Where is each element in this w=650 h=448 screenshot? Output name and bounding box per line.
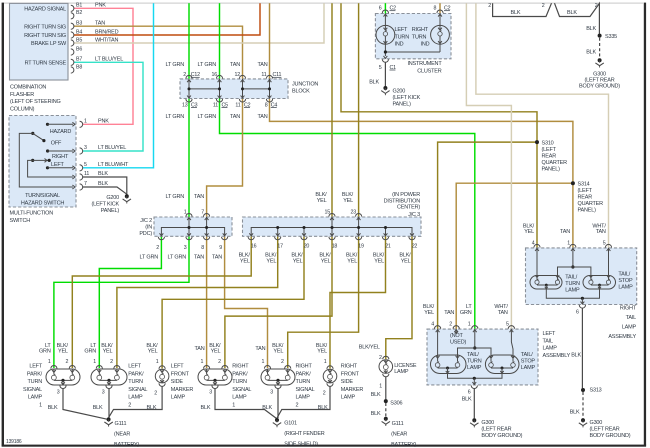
right tail lamp internal: tail/stop lamp: [583, 276, 616, 290]
svg-text:FLASHER: FLASHER: [10, 92, 34, 98]
ground G200 left kick panel (cluster): [383, 86, 387, 90]
svg-text:PANEL): PANEL): [542, 166, 561, 172]
wire LT GRN junction block pin 11 to left tail lamp pin 1: [220, 99, 475, 330]
svg-text:MARKER: MARKER: [341, 387, 364, 393]
svg-text:ASSEMBLY: ASSEMBLY: [543, 353, 571, 359]
svg-text:3: 3: [184, 245, 187, 251]
svg-text:(LEFT: (LEFT: [578, 188, 593, 194]
combination flasher box: [10, 3, 69, 80]
svg-text:RIGHT: RIGHT: [232, 364, 249, 370]
svg-text:BLK/: BLK/: [399, 252, 411, 258]
svg-text:G111: G111: [115, 421, 127, 427]
svg-text:LAMP: LAMP: [232, 395, 247, 401]
svg-text:S306: S306: [390, 400, 402, 406]
svg-text:SIGNAL: SIGNAL: [128, 387, 147, 393]
wire BLK right front side marker to G101: [277, 387, 330, 419]
svg-text:J/C 3: J/C 3: [408, 212, 420, 218]
wire BLK S313 to G300 dashed: [582, 392, 584, 418]
right front side marker lamp: [323, 369, 337, 383]
svg-text:TAN: TAN: [258, 114, 268, 120]
svg-text:TAIL/: TAIL/: [618, 272, 630, 278]
svg-text:LAMP: LAMP: [543, 346, 558, 352]
wire BLK switch pin 11 to G200: [83, 177, 127, 195]
svg-text:RIGHT: RIGHT: [620, 306, 637, 312]
wire BLK switch pin 7 to G200: [83, 187, 127, 194]
wire TAN S314 branch to left tail lamp pin 2: [456, 183, 573, 329]
svg-text:LAMP: LAMP: [28, 395, 43, 401]
svg-text:QUARTER: QUARTER: [542, 160, 568, 166]
wire BLK right park/turn lamp 1 to G101: [215, 389, 277, 419]
switch hazard contact: [46, 123, 49, 126]
svg-text:YEL: YEL: [321, 259, 331, 265]
svg-text:2: 2: [449, 322, 452, 328]
svg-text:LAMP: LAMP: [618, 285, 633, 291]
svg-text:B3: B3: [76, 21, 82, 27]
wire WHT/TAN top of page to right tail lamp pin 5: [476, 3, 609, 248]
svg-text:TAN: TAN: [596, 229, 606, 235]
svg-text:139186: 139186: [6, 439, 22, 445]
wire WHT/TAN top of page to left tail lamp pin 5: [466, 3, 511, 329]
svg-text:YEL: YEL: [103, 349, 113, 355]
svg-text:BLK/: BLK/: [291, 252, 303, 258]
svg-text:BLK: BLK: [201, 405, 211, 411]
svg-text:SWITCH: SWITCH: [10, 218, 31, 224]
svg-text:18: 18: [332, 244, 338, 250]
wire BLK left park/turn lamp 2 to G111: [108, 389, 110, 418]
svg-text:YEL: YEL: [317, 198, 327, 204]
svg-text:TAIL/: TAIL/: [565, 275, 577, 281]
svg-text:2: 2: [154, 390, 157, 396]
svg-text:RIGHT: RIGHT: [412, 27, 429, 33]
svg-text:(RIGHT FENDER: (RIGHT FENDER: [284, 431, 325, 437]
svg-text:LT BLU/YEL: LT BLU/YEL: [95, 57, 123, 63]
multi-function switch box: [9, 116, 76, 208]
svg-text:11: 11: [213, 102, 218, 108]
svg-text:2: 2: [542, 3, 545, 9]
svg-text:CLUSTER: CLUSTER: [417, 69, 441, 75]
svg-text:LAMP: LAMP: [341, 395, 356, 401]
svg-text:16: 16: [251, 244, 257, 250]
svg-text:3: 3: [270, 389, 273, 395]
svg-text:RT TURN SENSE: RT TURN SENSE: [25, 61, 67, 67]
svg-text:B4: B4: [76, 29, 82, 35]
svg-text:G300: G300: [481, 420, 494, 426]
left park/turn signal lamp 2: [91, 369, 127, 385]
svg-text:REAR: REAR: [542, 153, 557, 159]
wire BLK S306 to G111 dashed: [385, 403, 387, 417]
svg-text:21: 21: [385, 244, 391, 250]
J/C 3 internal bus: [251, 228, 412, 237]
svg-text:PARK/: PARK/: [232, 371, 248, 377]
svg-text:TURN: TURN: [296, 379, 311, 385]
svg-text:G300: G300: [590, 420, 603, 426]
svg-text:1: 1: [93, 359, 96, 365]
svg-text:LT GRN: LT GRN: [166, 194, 185, 200]
svg-text:1: 1: [232, 403, 235, 409]
svg-text:(NOT: (NOT: [450, 333, 463, 339]
svg-text:B2: B2: [76, 10, 82, 16]
svg-text:(LEFT REAR: (LEFT REAR: [585, 77, 615, 83]
svg-text:LEFT: LEFT: [171, 364, 184, 370]
svg-text:BLK/: BLK/: [265, 252, 277, 258]
svg-text:PNK: PNK: [98, 119, 109, 125]
svg-text:S310: S310: [542, 140, 554, 146]
svg-text:TAN: TAN: [560, 229, 570, 235]
svg-text:YEL: YEL: [240, 259, 250, 265]
flasher pin B6: [71, 49, 74, 55]
svg-text:13: 13: [182, 102, 188, 108]
svg-text:RIGHT TURN SIG: RIGHT TURN SIG: [24, 33, 66, 39]
svg-text:LEFT: LEFT: [51, 162, 64, 168]
svg-text:2: 2: [110, 359, 113, 365]
wire BLK/YEL J/C 3 pin 17 to left park/turn lamp 2: [117, 236, 278, 368]
svg-text:BLK: BLK: [318, 405, 328, 411]
svg-text:WHT/TAN: WHT/TAN: [95, 37, 118, 43]
svg-text:SIGNAL: SIGNAL: [296, 387, 315, 393]
wire BLK/YEL J/C 3 pin 16 to left park/turn lamp 1: [72, 236, 251, 368]
wire BLK/YEL top of page to J/C 3 pin 15: [331, 3, 333, 217]
svg-text:QUARTER: QUARTER: [578, 201, 604, 207]
svg-text:BODY GROUND): BODY GROUND): [481, 433, 522, 439]
svg-text:1: 1: [261, 359, 264, 365]
svg-text:CENTER): CENTER): [397, 205, 420, 211]
switch pin brackets: [80, 121, 83, 127]
svg-text:LEFT: LEFT: [128, 364, 141, 370]
wire PNK flasher B1 to switch pin 1: [74, 8, 133, 124]
ground G111 near battery: [107, 417, 111, 421]
svg-text:LT GRN: LT GRN: [198, 62, 217, 68]
wire BRN/RED flasher B4 to top of page: [74, 3, 260, 35]
svg-text:22: 22: [412, 244, 418, 250]
wire LT GRN top to instrument cluster pin 6: [384, 3, 386, 13]
svg-text:LAMP: LAMP: [171, 395, 186, 401]
svg-text:B7: B7: [76, 57, 82, 63]
svg-text:SIDE: SIDE: [341, 379, 354, 385]
svg-text:1: 1: [324, 359, 327, 365]
license lamp: [379, 360, 393, 374]
wire TAN junction block pin 8 to S314 and right tail lamp pin 1: [270, 99, 573, 248]
svg-text:TURN: TURN: [467, 358, 482, 364]
svg-text:SIDE: SIDE: [171, 379, 184, 385]
svg-text:IND: IND: [395, 42, 404, 48]
svg-text:TAIL/: TAIL/: [521, 352, 533, 358]
svg-text:BLK: BLK: [586, 50, 596, 56]
svg-text:5: 5: [603, 241, 606, 247]
svg-text:(IN: (IN: [145, 224, 152, 230]
svg-text:TURN: TURN: [565, 281, 580, 287]
svg-text:2: 2: [156, 245, 159, 251]
wire BLK/YEL J/C 3 pin 20 to left front side marker: [162, 236, 304, 368]
svg-text:20: 20: [304, 244, 310, 250]
svg-text:LAMP: LAMP: [467, 365, 482, 371]
svg-text:TAN: TAN: [230, 62, 240, 68]
svg-text:ASSEMBLY: ASSEMBLY: [608, 334, 636, 340]
svg-text:MARKER: MARKER: [171, 387, 194, 393]
wire BLK cluster to G200: [384, 62, 386, 86]
svg-text:YEL: YEL: [347, 259, 357, 265]
switch left contact: [46, 166, 49, 169]
svg-text:G200: G200: [393, 89, 406, 95]
svg-text:5: 5: [506, 322, 509, 328]
svg-text:2: 2: [488, 3, 491, 9]
svg-text:BLK: BLK: [371, 392, 381, 398]
svg-text:LT BLU/YEL: LT BLU/YEL: [98, 145, 126, 151]
svg-text:BLK: BLK: [567, 10, 577, 16]
switch pole bracket inner: [28, 160, 73, 177]
wire TAN flasher B3 to junction block pin 12: [74, 26, 243, 79]
svg-text:BLK: BLK: [571, 353, 581, 359]
svg-text:(IN POWER: (IN POWER: [392, 192, 420, 198]
left tail lamp internal: tail/stop lamp: [485, 355, 519, 374]
svg-text:GRN: GRN: [84, 349, 96, 355]
svg-text:TURN: TURN: [412, 34, 427, 40]
svg-text:(LEFT OF STEERING: (LEFT OF STEERING: [10, 99, 61, 105]
left tail lamp assembly box: [427, 329, 538, 385]
svg-text:PANEL): PANEL): [393, 102, 412, 108]
svg-text:BLK: BLK: [98, 171, 108, 177]
svg-text:BLK: BLK: [511, 10, 521, 16]
svg-text:LT GRN: LT GRN: [140, 255, 159, 261]
svg-text:SIDE SHIELD): SIDE SHIELD): [284, 442, 318, 448]
svg-text:LAMP: LAMP: [296, 395, 311, 401]
wire BLK/YEL S310 branch to left tail lamp pin 4: [438, 142, 537, 329]
svg-text:TAN: TAN: [212, 255, 222, 261]
svg-text:6: 6: [468, 389, 471, 395]
switch right contact: [46, 149, 49, 152]
svg-text:TURN: TURN: [232, 379, 247, 385]
svg-text:(NEAR: (NEAR: [114, 431, 130, 437]
svg-text:2: 2: [218, 359, 221, 365]
svg-text:TAN: TAN: [255, 346, 265, 352]
svg-text:YEL: YEL: [424, 310, 434, 316]
svg-text:PARK/: PARK/: [128, 371, 144, 377]
switch off blade: [31, 132, 34, 135]
svg-text:2: 2: [128, 403, 131, 409]
svg-text:J/C 2: J/C 2: [140, 218, 152, 224]
svg-text:BLK/: BLK/: [342, 192, 354, 198]
svg-text:RIGHT: RIGHT: [341, 364, 358, 370]
wire TAN J/C 2 pin 9 to right park/turn lamp 2: [225, 236, 268, 368]
svg-text:2: 2: [323, 390, 326, 396]
svg-text:BLK: BLK: [586, 26, 596, 32]
svg-text:BODY GROUND): BODY GROUND): [579, 84, 620, 90]
J/C 2 internal bus: [161, 228, 224, 237]
splice S313: [581, 388, 585, 392]
svg-text:IND: IND: [421, 42, 430, 48]
svg-text:2: 2: [281, 359, 284, 365]
svg-text:G300: G300: [593, 71, 606, 77]
flasher pin B8: [71, 67, 74, 73]
svg-text:LT GRN: LT GRN: [168, 255, 187, 261]
svg-text:INSTRUMENT: INSTRUMENT: [407, 61, 442, 67]
wire LT GRN top to junction block pin 16: [219, 3, 221, 79]
splice S310: [535, 140, 539, 144]
svg-text:4: 4: [532, 241, 535, 247]
right park/turn signal lamp 1: [198, 369, 232, 385]
left tail internal wiring: [437, 329, 439, 362]
svg-text:JUNCTION: JUNCTION: [292, 81, 318, 87]
splice S335: [598, 34, 602, 38]
svg-text:YEL: YEL: [401, 259, 411, 265]
svg-text:S314: S314: [578, 181, 590, 187]
svg-text:LT GRN: LT GRN: [166, 62, 185, 68]
svg-text:YEL: YEL: [524, 229, 534, 235]
svg-text:4: 4: [431, 322, 434, 328]
svg-text:B1: B1: [76, 3, 82, 9]
svg-text:S313: S313: [590, 388, 602, 394]
svg-text:1: 1: [379, 384, 382, 390]
svg-text:PNK: PNK: [95, 3, 106, 9]
svg-text:USED): USED): [450, 340, 466, 346]
svg-text:3: 3: [84, 145, 87, 151]
svg-text:TAN: TAN: [95, 21, 105, 27]
svg-text:FRONT: FRONT: [341, 371, 360, 377]
svg-text:TAN: TAN: [195, 346, 205, 352]
svg-text:PARK/: PARK/: [27, 371, 43, 377]
svg-text:YEL: YEL: [343, 198, 353, 204]
svg-text:LT GRN: LT GRN: [198, 114, 217, 120]
right tail internal wiring: [536, 248, 538, 280]
svg-text:2: 2: [595, 3, 598, 9]
svg-text:SIGNAL: SIGNAL: [23, 387, 42, 393]
left front side marker lamp: [155, 369, 169, 383]
wire TAN J/C 2 pin 8 to right park/turn lamp 1: [206, 236, 208, 368]
svg-text:1: 1: [84, 119, 87, 125]
svg-text:TAIL: TAIL: [626, 315, 637, 321]
svg-text:TURN: TURN: [28, 379, 43, 385]
J/C 2 box: [154, 217, 232, 236]
svg-text:HAZARD SIGNAL: HAZARD SIGNAL: [24, 7, 66, 13]
wire TAN top to junction block pin 11: [269, 3, 271, 79]
svg-text:1: 1: [201, 359, 204, 365]
splice S314: [571, 181, 575, 185]
left turn indicator bulb: [376, 25, 395, 44]
svg-text:B6: B6: [76, 46, 82, 52]
splice S306: [384, 399, 388, 403]
svg-text:S335: S335: [605, 34, 617, 40]
ground G101 right fender side shield: [275, 418, 279, 422]
svg-text:2: 2: [183, 72, 186, 78]
svg-text:TAN: TAN: [444, 310, 454, 316]
svg-text:DISTRIBUTION: DISTRIBUTION: [384, 198, 421, 204]
right park/turn signal lamp 2: [261, 369, 295, 385]
svg-text:BLK/: BLK/: [239, 252, 251, 258]
svg-text:BLK: BLK: [147, 405, 157, 411]
instrument cluster box: [375, 14, 451, 59]
wire BLK left front side marker to G111: [109, 387, 163, 418]
svg-text:LAMP: LAMP: [521, 365, 536, 371]
svg-text:YEL: YEL: [293, 259, 303, 265]
svg-text:BLK/: BLK/: [373, 252, 385, 258]
wire BLK/YEL top of page to S310 to right tail lamp pin 4: [341, 3, 537, 248]
svg-text:3: 3: [209, 389, 212, 395]
svg-text:PARK/: PARK/: [296, 371, 312, 377]
svg-text:8: 8: [433, 6, 436, 12]
svg-text:LAMP: LAMP: [622, 325, 637, 331]
svg-text:BLK: BLK: [98, 181, 108, 187]
svg-text:TURN: TURN: [395, 34, 410, 40]
svg-text:17: 17: [277, 244, 283, 250]
svg-text:BLK/YEL: BLK/YEL: [359, 345, 380, 351]
svg-text:YEL: YEL: [211, 349, 221, 355]
svg-text:TURN: TURN: [128, 379, 143, 385]
flasher pin B3: [71, 23, 74, 29]
svg-text:2: 2: [379, 355, 382, 361]
wire LT BLU/WHT switch pin 5 to top of page: [83, 3, 154, 168]
svg-text:TAN: TAN: [230, 114, 240, 120]
right turn indicator bulb: [431, 25, 450, 44]
wire WHT/TAN flasher B5 to top of page: [74, 3, 324, 43]
wire BLK right park/turn lamp 2 to G101: [277, 389, 279, 418]
svg-text:3: 3: [57, 389, 60, 395]
svg-text:16: 16: [212, 72, 218, 78]
switch pole bracket outer: [19, 133, 73, 187]
wire TAN junction block pin 11 to J/C 2 pin 7: [207, 99, 243, 218]
cluster internal ground wire: [439, 44, 441, 52]
svg-text:OFF: OFF: [51, 140, 62, 146]
wire LT BLU/YEL flasher B7 to switch pin 3: [74, 62, 143, 151]
wire LT GRN J/C 2 pin 2 to left park/turn lamp 2: [99, 236, 161, 368]
wire LT GRN junction block pin 13 to J/C 2 pin 1: [188, 99, 190, 218]
ground G300 left rear body ground (left): [472, 418, 476, 422]
ground G300 left rear body ground (top right): [598, 58, 602, 62]
svg-text:6: 6: [576, 310, 579, 316]
svg-text:BLK: BLK: [48, 405, 58, 411]
svg-text:TAN: TAN: [194, 194, 204, 200]
svg-text:TURN/SIGNAL: TURN/SIGNAL: [25, 193, 60, 199]
svg-text:YEL: YEL: [317, 349, 327, 355]
svg-text:BODY GROUND): BODY GROUND): [590, 433, 631, 439]
svg-text:B8: B8: [76, 64, 82, 70]
wire BLK S335 to G300 dashed: [599, 38, 601, 59]
svg-text:6: 6: [379, 6, 382, 12]
svg-text:5: 5: [84, 162, 87, 168]
flasher pin B5: [71, 40, 74, 46]
svg-text:SIGNAL: SIGNAL: [232, 387, 251, 393]
svg-text:LT BLU/WHT: LT BLU/WHT: [98, 162, 129, 168]
wire BLK license lamp to S306: [385, 377, 387, 400]
svg-text:PANEL): PANEL): [578, 207, 597, 213]
svg-text:TAN: TAN: [194, 255, 204, 261]
left tail lamp internal: tail/turn lamp: [431, 355, 467, 374]
svg-text:1: 1: [156, 359, 159, 365]
svg-text:BLK: BLK: [262, 405, 272, 411]
svg-text:LAMP: LAMP: [394, 369, 409, 375]
wire BLK/YEL J/C 3 pin 19 to right park/turn lamp 2: [288, 236, 359, 368]
svg-text:1: 1: [567, 241, 570, 247]
svg-text:REAR: REAR: [578, 194, 593, 200]
svg-text:PANEL): PANEL): [101, 208, 120, 214]
svg-text:BRAKE LP SW: BRAKE LP SW: [31, 41, 67, 47]
svg-text:BLK/: BLK/: [319, 252, 331, 258]
ground G300 left rear body ground (right): [581, 418, 585, 422]
svg-text:BLK: BLK: [369, 79, 379, 85]
svg-text:BATTERY): BATTERY): [114, 442, 139, 448]
wire BLK left park/turn lamp 1 to G111: [63, 389, 107, 420]
svg-text:TAIL: TAIL: [543, 338, 554, 344]
svg-text:YEL: YEL: [148, 349, 158, 355]
svg-text:19: 19: [358, 244, 364, 250]
svg-text:LAMP: LAMP: [565, 288, 580, 294]
svg-text:G200: G200: [106, 195, 119, 201]
svg-text:7: 7: [84, 181, 87, 187]
svg-text:LEFT: LEFT: [543, 331, 556, 337]
svg-text:BLK/: BLK/: [315, 192, 327, 198]
svg-text:RIGHT TURN SIG: RIGHT TURN SIG: [24, 24, 66, 30]
svg-text:(NEAR: (NEAR: [391, 431, 407, 437]
wire BLK top-right run 1: [493, 3, 552, 16]
svg-text:STOP: STOP: [618, 278, 633, 284]
